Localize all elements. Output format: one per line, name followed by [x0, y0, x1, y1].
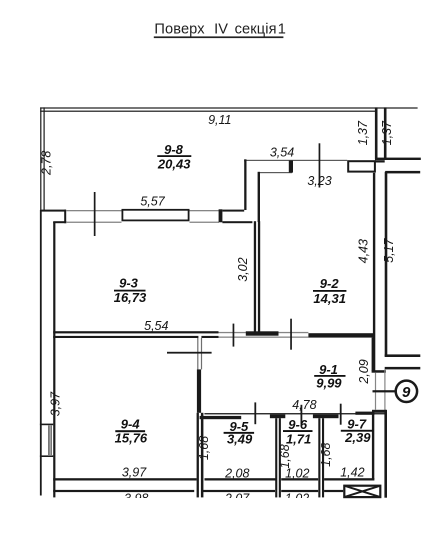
svg-text:3,54: 3,54 [270, 146, 294, 160]
room 9-6 label [283, 417, 313, 447]
wall 9-2 south [308, 333, 373, 337]
door tick D8 [340, 404, 342, 425]
svg-text:9-6: 9-6 [288, 417, 308, 432]
marker circle 9 [396, 381, 417, 402]
svg-text:5,57: 5,57 [140, 195, 165, 209]
room 9-2 label [313, 276, 346, 306]
wall 9-7 east inner line [372, 413, 374, 479]
wall stub vertical x245 [244, 159, 246, 210]
wall east right line [385, 172, 388, 357]
wall left interior line [53, 222, 55, 497]
svg-text:16,73: 16,73 [114, 290, 147, 305]
door tick D3 [233, 324, 235, 347]
wall stem1 line b [279, 418, 281, 497]
room 9-5 label [224, 419, 255, 447]
leader line to marker 9 [373, 390, 397, 392]
wall band gray bottom line seg2 [190, 222, 220, 223]
row2 line seg3 [281, 490, 318, 492]
wall 9-3/9-2 divider line b [258, 221, 260, 331]
svg-text:1,37: 1,37 [380, 120, 394, 145]
svg-text:5,54: 5,54 [144, 319, 168, 333]
wire left thin line outer [40, 107, 41, 210]
wall H2 right segment [385, 171, 420, 174]
wall east corner horizontal [372, 370, 386, 373]
wall door head above 9-7 [372, 410, 386, 413]
svg-text:2,39: 2,39 [344, 430, 371, 445]
wall T-cap1 [270, 415, 285, 419]
wall left exterior upper segment [40, 210, 42, 496]
svg-text:1,68: 1,68 [197, 436, 211, 460]
window W3 bottom jamb [40, 455, 53, 457]
wall divider T-foot [246, 331, 279, 335]
wall T-cap2 [313, 415, 339, 419]
opening 2,09 gray line a [375, 373, 376, 410]
wall horizontal H1 [244, 159, 246, 161]
opening 2,09 gray line b [384, 369, 385, 409]
svg-text:1,42: 1,42 [340, 466, 364, 480]
wall right outer [384, 410, 387, 498]
svg-text:2,09: 2,09 [357, 359, 371, 384]
svg-text:4,78: 4,78 [292, 398, 316, 412]
svg-text:9-8: 9-8 [164, 142, 184, 157]
wall horizontal H2 [258, 172, 292, 173]
wall band gray top line seg2 [190, 210, 220, 211]
wall stem1 line a [275, 418, 277, 497]
wall east door top [385, 354, 421, 357]
svg-text:3,97: 3,97 [122, 466, 147, 480]
svg-text:5,17: 5,17 [382, 237, 396, 262]
wall 1,37 left line [375, 107, 378, 159]
door tick D2 [319, 143, 321, 187]
window W3 top jamb [40, 424, 53, 426]
wall band gray top line seg1 [66, 210, 122, 211]
wall block at 289 [289, 160, 293, 172]
room 9-4 label [115, 417, 148, 446]
svg-text:9-3: 9-3 [119, 276, 139, 291]
svg-text:3,02: 3,02 [236, 257, 250, 281]
door tick D4 [290, 319, 292, 350]
wall bottom main line seg4 [324, 478, 374, 480]
wall band gray bottom line seg1 [66, 222, 122, 223]
svg-text:ПоверхIVсекція1: ПоверхIVсекція1 [154, 22, 286, 38]
room 9-1 label [314, 362, 345, 390]
wall band dark top seg3 [222, 210, 244, 212]
row2 line seg4 [324, 490, 343, 492]
wall band jamb block [219, 209, 223, 222]
door tick D5 horizontal [167, 352, 212, 354]
door 9-4 gray line b [201, 338, 202, 369]
wall stem2 line b [322, 418, 324, 497]
svg-text:4,43: 4,43 [357, 239, 371, 263]
svg-text:1,71: 1,71 [286, 432, 311, 447]
window W3 glass line b [51, 425, 52, 455]
wall east lower-left line [372, 338, 374, 371]
svg-text:9: 9 [402, 384, 411, 401]
wire top boundary line 1 [40, 107, 417, 108]
wall H1 right extension [375, 158, 421, 160]
room 9-8 label [157, 142, 191, 171]
svg-text:3,23: 3,23 [307, 174, 331, 188]
wall 9-4/9-5 pair line b [201, 413, 204, 498]
wall bottom main line seg3 [281, 478, 318, 480]
door tick D1 [94, 192, 96, 236]
wall bottom main line seg2 [205, 478, 276, 480]
wall 1,37 right line [384, 107, 387, 159]
svg-text:1,37: 1,37 [356, 120, 370, 145]
svg-text:9,99: 9,99 [316, 375, 342, 390]
door tick D7 [301, 405, 303, 424]
wall band 9-3/9-4 top line [53, 331, 218, 333]
wall stem2 line a [318, 418, 320, 497]
wall bottom main line seg1 [53, 478, 196, 480]
wall band 9-8/9-3 left dark top [40, 210, 66, 212]
wall 9-4/9-5 pair line a [197, 413, 199, 498]
svg-text:9-4: 9-4 [121, 417, 141, 432]
wall 9-2 east left line [373, 173, 375, 372]
row2 line seg1 [53, 490, 194, 492]
wire left thin line inner [44, 107, 45, 210]
svg-text:14,31: 14,31 [313, 291, 346, 306]
wall band 9-3/9-4 bottom line [53, 336, 198, 338]
window W3 glass line a [48, 425, 49, 455]
svg-text:9,11: 9,11 [208, 113, 231, 127]
wall east door bottom [385, 367, 421, 370]
svg-text:9-2: 9-2 [320, 276, 340, 291]
door tick D6 [254, 402, 256, 424]
row2 line seg2 [202, 490, 275, 492]
svg-text:3,97: 3,97 [48, 391, 62, 416]
wall 9-3/9-2 divider line a [254, 221, 256, 331]
wall band left dark bottom [53, 221, 66, 223]
room 9-7 label [341, 417, 373, 446]
wall band dark bottom seg3 [222, 221, 252, 223]
svg-text:1,68: 1,68 [278, 444, 292, 468]
svg-text:1,68: 1,68 [319, 442, 333, 466]
room 9-3 label [114, 276, 147, 305]
title: Поверх IV секція 1 [154, 22, 286, 39]
wire top boundary line 2 [40, 111, 376, 112]
wall band left vertical step [64, 210, 66, 224]
window W1 (5,57) [122, 210, 188, 221]
wall 9-2 left line upper [258, 172, 260, 222]
small rooms top thin line [204, 413, 385, 414]
corridor gray line north [219, 332, 309, 333]
svg-text:3,49: 3,49 [227, 432, 253, 447]
wall 9-4 east single [197, 369, 201, 412]
wall 9-7 top right part [355, 412, 374, 415]
wall 9-4 east stub below band [197, 338, 198, 369]
corridor gray threshold [219, 337, 309, 338]
window W2 [348, 161, 375, 171]
svg-text:20,43: 20,43 [157, 156, 191, 171]
cut dimension texts second row [124, 491, 309, 505]
wall 9-5 top [200, 416, 242, 419]
shaft box with X [344, 486, 380, 497]
svg-text:15,76: 15,76 [115, 431, 148, 446]
svg-text:2,78: 2,78 [40, 151, 54, 176]
